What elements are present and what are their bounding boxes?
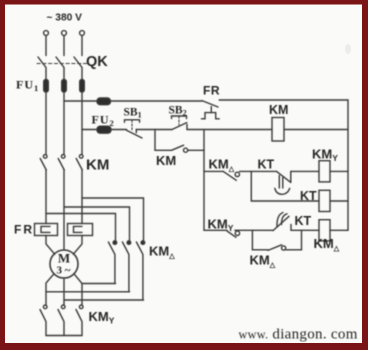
wire L2 drop to QK	[63, 36, 65, 56]
motor bottom wire right	[74, 274, 82, 306]
coil KT	[319, 190, 330, 211]
tap wire phase3 to KM-delta pole3	[82, 198, 144, 241]
wire phase3 KM to FR heater	[81, 170, 83, 224]
fuse FU2 upper	[97, 98, 111, 105]
wire L3 drop to QK	[81, 36, 83, 56]
time relay KT NC delayed contact	[275, 171, 291, 194]
contactor KM-Y main contact pole 2	[58, 305, 65, 335]
wire phase2 FU1 to KM	[63, 92, 65, 154]
delta link motor-middle to KM-delta pole3	[64, 299, 144, 301]
row3 riser	[301, 230, 303, 250]
pushbutton SB2 (NO start)	[172, 116, 188, 130]
contactor KM-delta main contact pole 2	[122, 241, 130, 292]
contactor KM-delta main contact pole 3	[136, 241, 144, 300]
contactor KM main contact pole 3	[76, 155, 83, 170]
right rail	[347, 100, 349, 230]
faint smudge	[345, 44, 351, 54]
svg-text:www. diangon. com: www. diangon. com	[239, 327, 358, 343]
thermal relay FR NC contact	[202, 101, 220, 119]
wire SB1 to SB2	[136, 129, 172, 131]
wire phase3 FU1 to KM	[81, 92, 83, 154]
terminal L1	[44, 31, 49, 36]
contactor KM-Y NC interlock contact	[227, 230, 273, 237]
pushbutton SB1 (NC stop)	[125, 120, 143, 138]
row1 wire from rail	[204, 170, 223, 172]
row3 self-hold branch drop	[252, 230, 268, 250]
wire KM-delta coil to rail	[330, 229, 348, 231]
motor bottom wire left	[46, 274, 54, 306]
switch QK pole 1 blade	[38, 57, 46, 80]
wire phase1 KM to FR heater	[45, 170, 47, 224]
wire KT contact to KMY coil	[291, 170, 319, 172]
coil KM	[272, 118, 284, 142]
svg-text:KT: KT	[258, 158, 275, 172]
star point bar	[46, 335, 82, 337]
time relay KT NO delayed contact	[273, 213, 291, 231]
thermal relay FR heater element phase1	[35, 224, 58, 236]
wire KM coil to rail	[284, 129, 348, 131]
wire phase1 FU1 to KM	[45, 92, 47, 154]
fuse FU2 lower	[97, 126, 111, 133]
switch QK mechanical link (dashed)	[37, 63, 88, 65]
motor M 3~	[50, 250, 78, 278]
tap wire phase1 to KM-delta pole1	[46, 214, 116, 241]
svg-text:KM: KM	[269, 103, 288, 117]
wire SB2 to junction and KM coil	[187, 129, 272, 131]
fuse FU1 phase 2	[62, 80, 67, 93]
contactor KM-delta aux NO contact	[268, 245, 302, 251]
svg-text:KT: KT	[300, 189, 317, 203]
terminal L2	[62, 31, 67, 36]
fuse FU1 phase 3	[80, 80, 85, 93]
svg-text:~ 380 V: ~ 380 V	[47, 13, 83, 24]
contactor KM aux NO contact	[155, 145, 204, 152]
contactor KM main contact pole 2	[58, 155, 65, 170]
thermal relay FR heater element phase3	[68, 224, 93, 236]
svg-text:3 ~: 3 ~	[57, 265, 71, 277]
row1b drop to KT coil	[251, 171, 319, 201]
wire L1 drop to QK	[45, 36, 47, 56]
wire phase2 KM down to motor	[63, 170, 65, 250]
row2 wire from rail corner	[204, 229, 227, 231]
wire KT coil to rail	[330, 200, 348, 202]
wire KMY coil to rail	[330, 170, 348, 172]
switch QK pole 2 blade	[56, 57, 64, 80]
control wire B from phase3	[82, 129, 127, 131]
wire KT contact to KM-delta coil	[291, 229, 319, 231]
svg-text:FR: FR	[203, 84, 220, 98]
wire phase1 heater to motor	[46, 236, 55, 255]
contactor KM-delta NC interlock contact	[223, 171, 276, 180]
control wire A from FR to right rail	[219, 99, 348, 101]
fuse FU1 phase 1	[44, 80, 49, 93]
contactor KM-Y main contact pole 3	[76, 305, 83, 335]
wire phase3 heater to motor	[73, 236, 82, 255]
control rail x204	[203, 130, 205, 231]
svg-text:KT: KT	[295, 214, 312, 228]
contactor KM-delta main contact pole 1	[108, 241, 116, 284]
svg-text:KM: KM	[86, 157, 109, 174]
contactor KM-Y main contact pole 1	[40, 305, 47, 335]
coil KM-Y	[319, 161, 330, 182]
coil KM-delta	[319, 220, 330, 241]
svg-text:QK: QK	[86, 54, 108, 70]
motor bottom wire middle	[63, 278, 65, 305]
terminal L3	[80, 31, 85, 36]
svg-text:KM: KM	[156, 153, 176, 168]
contactor KM aux self-hold branch: drop	[154, 130, 156, 151]
svg-text:M: M	[58, 251, 70, 266]
switch QK pole 3 blade	[74, 57, 82, 80]
control wire A from phase2 to FR	[64, 100, 202, 102]
svg-text:FR: FR	[14, 223, 34, 237]
contactor KM main contact pole 1	[40, 155, 47, 170]
delta link motor-right to KM-delta pole1	[82, 283, 116, 285]
tap wire phase2 to KM-delta pole2	[64, 207, 130, 241]
delta link motor-left to KM-delta pole2	[46, 291, 130, 293]
